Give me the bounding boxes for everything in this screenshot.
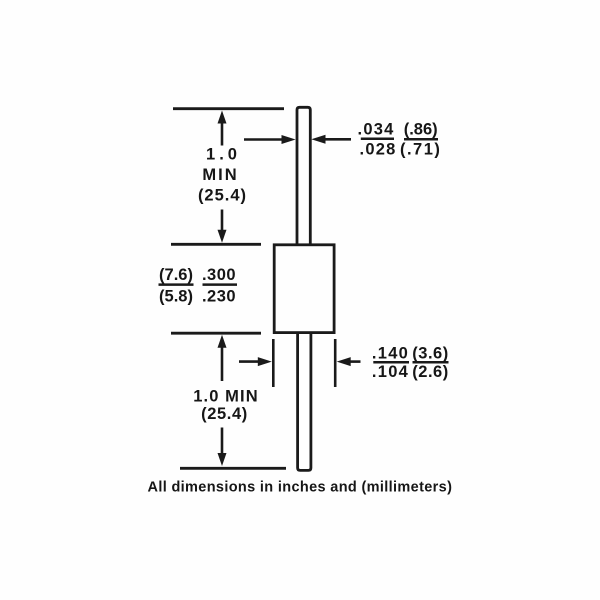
svg-text:.140: .140: [372, 344, 409, 362]
svg-text:(5.8): (5.8): [159, 288, 193, 306]
label (3.6) over (2.6): [412, 344, 448, 381]
body top extension line: [171, 243, 261, 246]
lead width arrowhead left: [311, 135, 325, 144]
lead width arrow tails: [244, 138, 351, 141]
fraction bar .300/.230: [203, 283, 238, 286]
lead width arrowhead right: [282, 135, 296, 144]
label (.86) over (.71): [400, 120, 441, 158]
body width right extension line: [334, 339, 337, 387]
lower 1.0 MIN dimension shafts: [221, 344, 224, 457]
body width arrowhead right: [258, 357, 272, 366]
svg-text:1.0 MIN: 1.0 MIN: [193, 388, 258, 406]
upper dimension arrowhead up: [218, 111, 227, 124]
diode body: [274, 245, 334, 333]
label 1.0 MIN (25.4) upper: [198, 146, 247, 205]
svg-text:(7.6): (7.6): [159, 266, 193, 284]
fraction bar (7.6)/(5.8): [159, 283, 194, 286]
lower dimension arrowhead up: [218, 335, 227, 348]
svg-text:(.71): (.71): [400, 141, 441, 159]
svg-text:(.86): (.86): [404, 120, 438, 138]
svg-text:(25.4): (25.4): [198, 187, 247, 205]
svg-text:.104: .104: [372, 363, 409, 381]
bottom extension line: [180, 467, 286, 470]
caption: All dimensions in inches and (millimeters): [148, 480, 453, 496]
svg-text:.034: .034: [358, 120, 395, 138]
lower dimension arrowhead down: [218, 453, 227, 466]
label 1.0 MIN (25.4) lower: [193, 388, 258, 423]
svg-text:(2.6): (2.6): [412, 363, 448, 381]
fraction bar (.86)/(.71): [404, 138, 438, 141]
svg-text:(3.6): (3.6): [412, 344, 448, 362]
svg-text:1.0: 1.0: [206, 146, 241, 164]
label .034 over .028: [358, 120, 397, 158]
svg-text:(25.4): (25.4): [201, 405, 248, 423]
fraction bar .034/.028: [361, 138, 394, 141]
body bottom extension line: [171, 332, 261, 335]
label (7.6) over (5.8): [159, 266, 193, 306]
upper lead: [297, 107, 310, 245]
svg-text:All dimensions in inches and (: All dimensions in inches and (millimeter…: [148, 480, 453, 496]
body width arrowhead left: [337, 357, 351, 366]
svg-text:.230: .230: [202, 288, 236, 306]
label .300 over .230: [202, 266, 236, 306]
svg-text:MIN: MIN: [202, 166, 238, 184]
top extension line: [173, 107, 284, 110]
label .140 over .104: [372, 344, 409, 381]
svg-text:.028: .028: [360, 140, 397, 158]
svg-text:.300: .300: [202, 266, 236, 284]
fraction bar (3.6)/(2.6): [413, 361, 449, 364]
upper dimension arrowhead down: [218, 230, 227, 243]
body width arrow tails: [239, 360, 361, 363]
body width left extension line: [272, 339, 275, 387]
upper 1.0 MIN dimension shafts: [221, 119, 224, 234]
lower lead: [298, 332, 311, 470]
fraction bar .140/.104: [373, 361, 409, 364]
